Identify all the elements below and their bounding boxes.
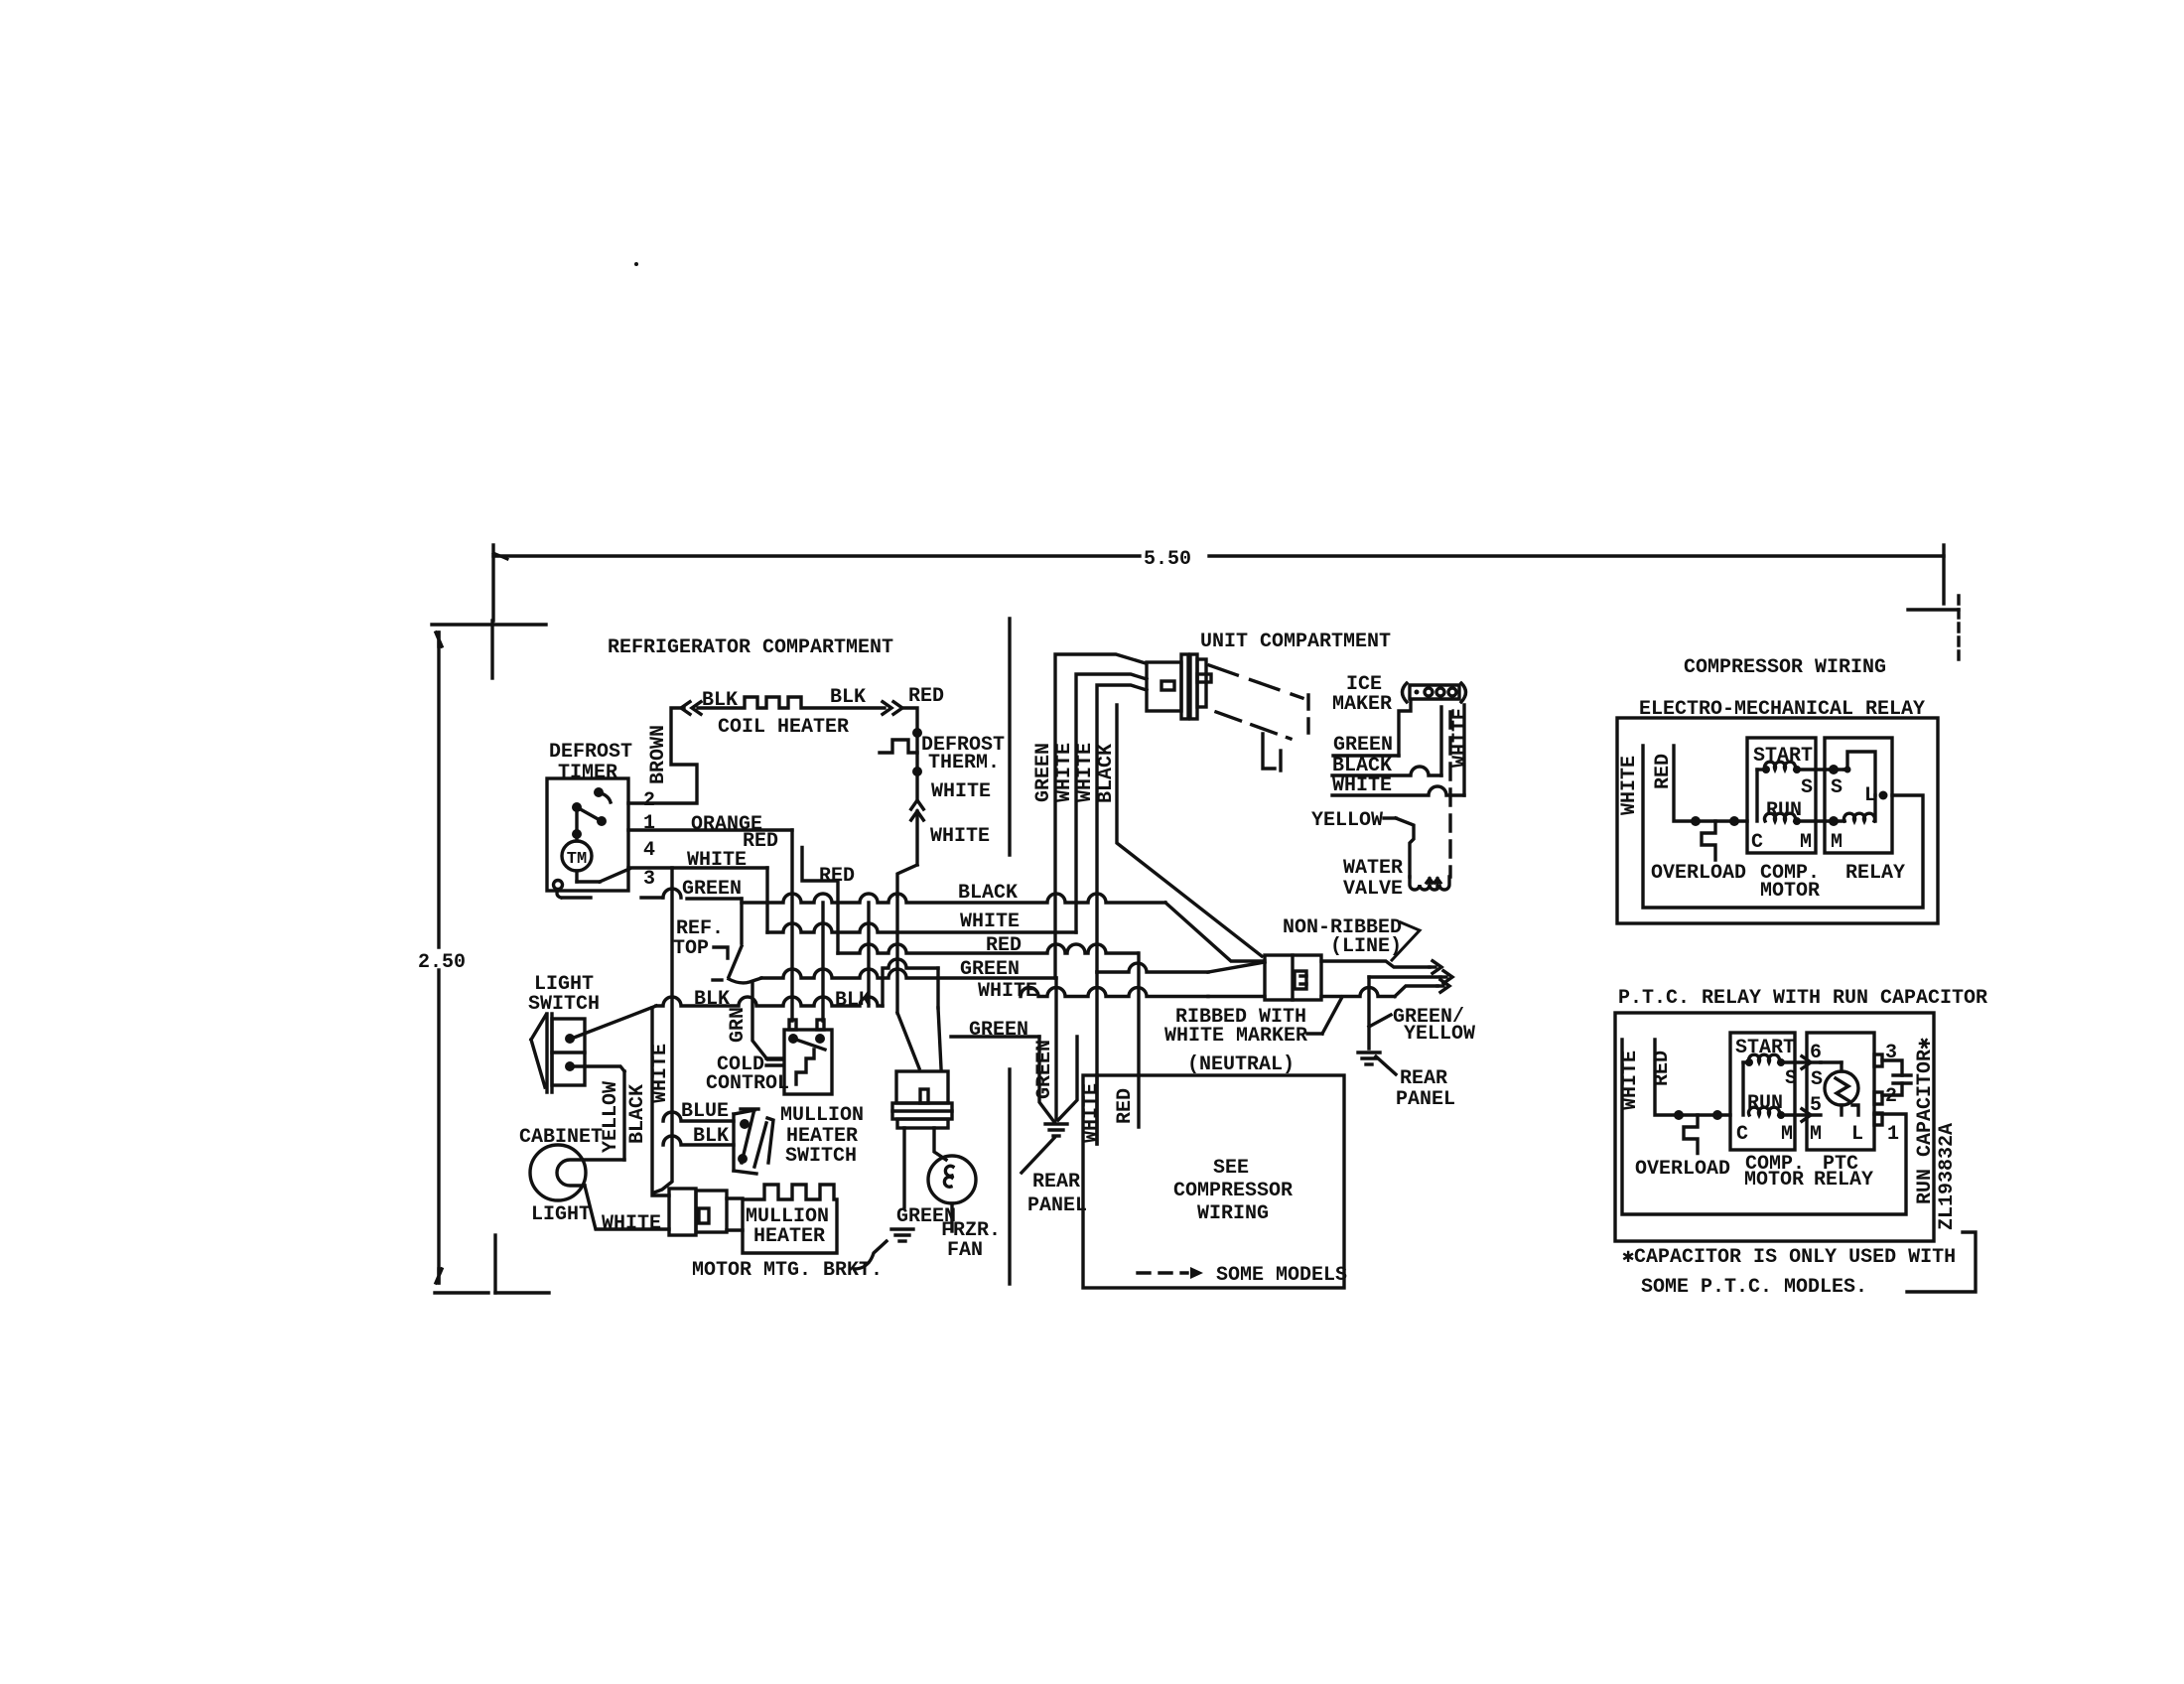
svg-text:WHITE: WHITE [1449,708,1472,768]
svg-text:BLK: BLK [693,1125,729,1148]
ptc disc wires [1821,1060,1842,1063]
coil heater element [698,697,885,708]
svg-text:M: M [1831,831,1843,854]
svg-text:S: S [1811,1068,1823,1091]
svg-text:ZL193832A: ZL193832A [1936,1123,1959,1230]
svg-text:MOTOR: MOTOR [1744,1169,1804,1192]
wire red corner down from coil heater [904,708,917,733]
mullion heater element box [743,1185,837,1253]
light switch to blk wire diagonal [574,1006,656,1038]
wire black bus drop to cold control [821,903,824,1021]
wire green fan to flag [951,1035,1039,1038]
wire white lead to receptacle [1097,963,1208,972]
svg-text:BLK: BLK [830,686,866,709]
wire white vert plug 1 [1076,674,1147,932]
svg-text:5: 5 [1810,1094,1822,1117]
wire black from switch to mullion connector [652,1008,669,1195]
wire white into box [1095,1075,1098,1144]
freezer fan connector [896,1071,948,1103]
em run coil [1765,813,1796,821]
wire green yellow ground [1367,977,1370,1049]
svg-text:YELLOW: YELLOW [1404,1023,1475,1046]
bus line white 2 [1021,988,1208,997]
svg-text:S: S [1785,1067,1797,1090]
svg-text:RED: RED [819,865,855,888]
svg-text:WHITE MARKER: WHITE MARKER [1164,1025,1307,1048]
em start coil [1765,762,1796,770]
svg-text:M: M [1800,831,1812,854]
svg-text:P.T.C. RELAY WITH RUN CAPACITO: P.T.C. RELAY WITH RUN CAPACITOR [1618,987,1987,1010]
ptc red wire [1655,1040,1730,1115]
svg-text:5.50: 5.50 [1144,548,1191,571]
svg-text:SWITCH: SWITCH [528,993,600,1016]
svg-text:WHITE: WHITE [1053,743,1076,802]
defrost therm symbol [880,740,917,753]
bus line green [761,969,1056,978]
svg-text:M: M [1810,1123,1822,1146]
cold control pins [789,1020,796,1030]
wire white below therm [915,733,918,772]
svg-text:BLK: BLK [835,989,871,1012]
plug body [1147,662,1181,711]
wire grn tap [752,983,783,1059]
svg-text:WHITE: WHITE [978,980,1037,1003]
cabinet light bulb [530,1145,586,1200]
ptc relay box [1807,1033,1874,1150]
svg-text:LIGHT: LIGHT [531,1203,591,1226]
svg-text:3: 3 [643,868,655,891]
ground rear panel left [1045,1122,1067,1125]
defrost timer motor TM [562,841,592,871]
svg-text:OVERLOAD: OVERLOAD [1651,862,1746,885]
arrowheads into coil heater right [883,702,891,715]
svg-text:YELLOW: YELLOW [1311,809,1383,832]
light switch plate [545,1014,548,1092]
em comp motor box [1747,738,1816,853]
wire yellow to valve [1396,818,1414,877]
water valve coil [1410,877,1449,890]
wire blk cold control [656,997,883,1006]
svg-text:TM: TM [567,850,587,869]
em start coil left wire [1757,768,1765,771]
cabinet light filament [557,1160,624,1186]
white lead diagonal to receptacle [1208,995,1265,998]
ptc junction dots [1674,1110,1684,1120]
em overload symbol [1702,821,1715,860]
junction dot defrost therm top [912,728,922,738]
wire black vert plug [1117,705,1262,956]
corner mark top-left [432,623,546,626]
svg-text:MULLION: MULLION [780,1104,864,1127]
em relay coil [1844,813,1875,821]
svg-text:YELLOW: YELLOW [600,1081,622,1153]
svg-text:GREEN: GREEN [1032,743,1055,802]
svg-text:SOME MODELS: SOME MODELS [1216,1264,1347,1287]
svg-text:WHITE: WHITE [960,911,1020,933]
wire 3 white [628,866,767,869]
svg-text:CONTROL: CONTROL [706,1072,789,1095]
svg-text:C: C [1751,831,1763,854]
cold control thermostat symbol [796,1050,814,1084]
svg-text:OVERLOAD: OVERLOAD [1635,1158,1730,1181]
ground green yellow [1358,1051,1380,1053]
svg-text:TIMER: TIMER [558,762,617,784]
svg-text:BROWN: BROWN [647,725,670,784]
light switch contacts [565,1034,575,1044]
ptc terminal 1 [1874,1113,1882,1125]
mullion heater switch box [732,1114,735,1171]
dashed green wire from timer [563,896,591,899]
svg-text:WHITE: WHITE [602,1212,661,1235]
defrost timer box [547,778,628,891]
ptc start coil [1749,1054,1780,1062]
svg-text:WHITE: WHITE [930,825,990,848]
svg-text:REAR: REAR [1032,1171,1080,1193]
svg-text:WHITE: WHITE [687,849,747,872]
bus line white [767,923,1076,932]
ptc white wire [1622,1040,1906,1214]
cabinet light exit wire [585,1186,669,1229]
light switch body [552,1019,585,1085]
wire fan feed L [883,959,938,1006]
wire white t3 down to white bus [765,868,768,932]
svg-text:✱CAPACITOR IS ONLY USED WITH: ✱CAPACITOR IS ONLY USED WITH [1622,1246,1956,1269]
em outer box [1617,718,1938,923]
white wire arrows up [911,800,924,809]
mullion heater switch contacts [740,1119,750,1129]
compartment divider line upper [1008,619,1011,855]
wire black feed to fan [867,903,870,1006]
wire blue [663,1112,734,1121]
svg-text:RUN: RUN [1747,1092,1783,1115]
svg-text:BLUE: BLUE [681,1100,729,1123]
svg-text:L: L [1851,1123,1863,1146]
em wires motor to relay [1796,768,1844,771]
plug dashes [1209,665,1302,698]
cold control box [784,1030,832,1094]
svg-text:RED: RED [1652,754,1675,789]
wire 1 orange [628,828,792,831]
svg-text:RUN CAPACITOR✱: RUN CAPACITOR✱ [1914,1038,1937,1204]
svg-text:PANEL: PANEL [1396,1088,1455,1111]
bus line black [742,894,1165,903]
mullion heater connector wires right [727,1196,743,1199]
svg-text:WHITE: WHITE [1618,756,1641,815]
wire white vertical [654,868,672,1193]
dimension line 2.50 left [437,632,440,947]
svg-text:RED: RED [908,685,944,708]
ptc start coil stub [1743,1060,1749,1063]
svg-text:BLACK: BLACK [626,1084,649,1144]
light switch bottom wire [574,1066,624,1071]
defrost timer contacts [594,787,604,797]
svg-text:4: 4 [643,839,655,862]
svg-text:REFRIGERATOR COMPARTMENT: REFRIGERATOR COMPARTMENT [608,636,893,659]
ptc terminal 3 [1874,1054,1882,1066]
svg-text:COMPRESSOR: COMPRESSOR [1173,1180,1293,1202]
svg-text:WHITE: WHITE [1619,1051,1642,1110]
svg-text:VALVE: VALVE [1343,878,1403,901]
svg-text:MOTOR: MOTOR [1760,880,1820,903]
em relay box [1825,738,1892,853]
legend some models [1138,1271,1187,1274]
svg-text:TOP: TOP [673,937,709,960]
svg-text:GREEN: GREEN [1033,1040,1056,1099]
wire brown from coil heater to timer terminal 2 [628,708,697,803]
svg-text:DEFROST: DEFROST [549,741,632,764]
mullion heater connector [669,1189,696,1235]
svg-text:BLK: BLK [702,689,738,712]
svg-text:WATER: WATER [1343,857,1403,880]
freezer fan motor [928,1156,976,1203]
svg-text:SEE: SEE [1213,1157,1249,1180]
wire red to red bus [802,848,838,954]
ice maker connector [1403,683,1408,702]
plug dash stub [1263,734,1275,769]
em white wire [1643,746,1923,908]
wire red into box [1137,953,1140,1127]
freezer fan motor bottom wire [950,1203,953,1231]
ptc outer box [1615,1013,1934,1241]
svg-text:HEATER: HEATER [753,1225,825,1248]
svg-text:THERM.: THERM. [928,752,1000,774]
em red wire [1674,746,1747,821]
svg-text:MAKER: MAKER [1332,693,1392,716]
green flag [1039,1037,1054,1122]
wire orange down to cold control [790,830,793,1021]
svg-text:M: M [1781,1123,1793,1146]
svg-text:GREEN: GREEN [969,1019,1028,1042]
svg-text:WHITE: WHITE [649,1044,672,1103]
wire white stub into box [1095,972,1098,1144]
light switch wedge [531,1015,546,1087]
svg-text:COMPRESSOR WIRING: COMPRESSOR WIRING [1684,656,1886,679]
receptacle [1265,955,1321,1000]
bus line red [838,944,1138,953]
defrost timer ground terminal [554,881,563,890]
corner mark top-right [1908,608,1959,611]
wire white joins white bus [895,896,898,932]
svg-text:WHITE: WHITE [931,780,991,803]
svg-text:WHITE: WHITE [1080,1083,1103,1143]
compartment divider line lower [1008,1069,1011,1284]
svg-text:RELAY: RELAY [1845,862,1905,885]
ptc capacitor [1882,1060,1902,1095]
svg-text:PANEL: PANEL [1027,1194,1087,1217]
svg-text:BLACK: BLACK [1095,744,1118,803]
ptc comp motor box [1730,1033,1795,1150]
wire white to fan [895,932,898,1013]
cold control contacts [788,1034,798,1044]
svg-text:RED: RED [1651,1051,1674,1086]
ptc disc [1825,1071,1858,1105]
green hook [663,889,681,898]
non-ribbed leader [1392,922,1420,960]
svg-text:RED: RED [743,830,778,853]
svg-text:FAN: FAN [947,1239,983,1262]
corner mark bottom-left [435,1291,488,1294]
svg-text:2.50: 2.50 [418,951,466,974]
stray dot [634,262,638,266]
svg-text:GRN: GRN [727,1007,750,1043]
fan connector diagonals [897,1013,919,1068]
wire white vert plug 2 [1097,685,1147,972]
svg-text:2: 2 [643,789,655,812]
mullion heater switch wedge [767,1118,773,1163]
lead line C [1321,988,1395,997]
ref top switch [740,899,743,943]
svg-text:UNIT COMPARTMENT: UNIT COMPARTMENT [1200,631,1391,653]
svg-text:REAR: REAR [1400,1067,1447,1090]
ptc terminal 2 [1874,1092,1882,1104]
wire green vert plug [1055,654,1146,978]
wire yellow [622,1071,625,1160]
em relay internals [1844,752,1875,795]
svg-text:COIL HEATER: COIL HEATER [718,716,849,739]
svg-text:RELAY: RELAY [1814,1169,1873,1192]
wire blk to mullion switch [663,1136,734,1145]
em junction dots [1691,816,1701,826]
svg-text:SWITCH: SWITCH [785,1145,857,1168]
lead line B [1369,975,1440,978]
lead line A [1321,961,1430,967]
ptc run coil [1749,1107,1780,1115]
ptc note bracket [1907,1232,1976,1292]
svg-text:1: 1 [1887,1123,1899,1146]
svg-text:(LINE): (LINE) [1330,935,1402,958]
svg-text:S: S [1801,776,1813,799]
svg-text:RED: RED [1114,1088,1137,1124]
dashed white vertical [1448,712,1451,877]
junction dot below therm [912,767,922,776]
svg-text:C: C [1736,1123,1748,1146]
ptc overload symbol [1684,1115,1698,1154]
ptc wires to relay [1783,1060,1821,1063]
svg-text:GREEN: GREEN [1333,734,1393,757]
freezer fan connector lower wires [902,1128,905,1207]
svg-text:SOME P.T.C. MODLES.: SOME P.T.C. MODLES. [1641,1276,1867,1299]
svg-text:(NEUTRAL): (NEUTRAL) [1187,1053,1295,1076]
ground freezer fan [891,1227,913,1230]
black bus diagonal to receptacle [1165,903,1265,961]
svg-text:WIRING: WIRING [1197,1202,1269,1225]
arrowheads into coil heater left [681,702,690,715]
wire green bus down flag [1054,978,1057,1120]
dimension line 5.50 top [493,554,1140,557]
wire white down from therm [915,772,918,800]
svg-text:S: S [1831,776,1843,799]
see compressor wiring box [1083,1075,1344,1288]
svg-text:WHITE: WHITE [1074,743,1097,802]
